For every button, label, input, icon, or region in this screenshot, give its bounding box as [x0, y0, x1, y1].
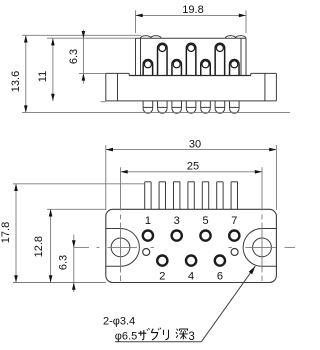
- svg-text:3: 3: [174, 215, 180, 227]
- svg-text:2-φ3.4: 2-φ3.4: [103, 316, 135, 328]
- svg-text:11: 11: [37, 71, 49, 82]
- svg-text:φ6.5: φ6.5: [115, 330, 137, 342]
- svg-text:6.3: 6.3: [58, 255, 70, 270]
- svg-text:4: 4: [188, 270, 194, 282]
- svg-text:1: 1: [145, 215, 151, 227]
- svg-text:6: 6: [217, 270, 223, 282]
- svg-text:3: 3: [188, 331, 194, 343]
- svg-text:2: 2: [159, 270, 165, 282]
- svg-text:25: 25: [187, 161, 199, 173]
- svg-text:30: 30: [189, 138, 201, 150]
- svg-text:7: 7: [231, 215, 237, 227]
- svg-text:5: 5: [202, 215, 208, 227]
- svg-text:17.8: 17.8: [0, 222, 12, 243]
- svg-text:6.3: 6.3: [68, 49, 80, 64]
- svg-text:13.6: 13.6: [10, 71, 22, 92]
- svg-text:19.8: 19.8: [182, 4, 203, 16]
- svg-text:12.8: 12.8: [33, 236, 45, 257]
